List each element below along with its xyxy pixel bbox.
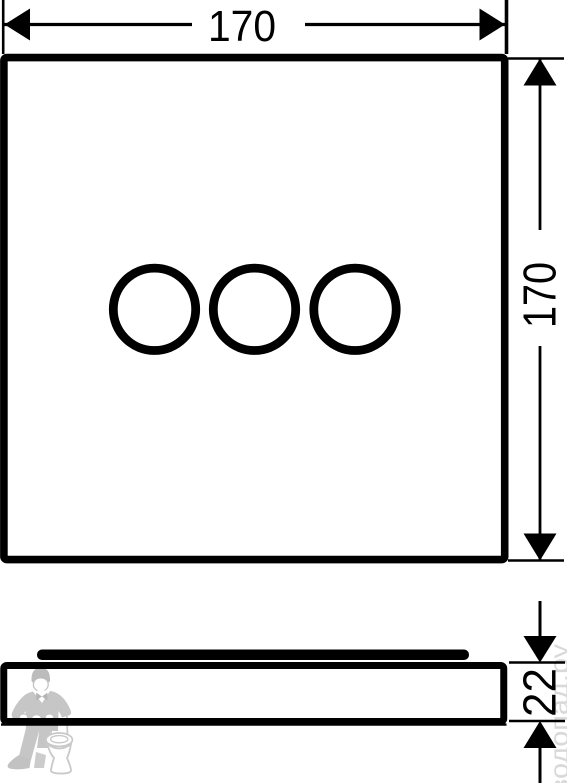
svg-text:170: 170 xyxy=(208,2,276,51)
svg-text:170: 170 xyxy=(514,262,566,328)
svg-text:22: 22 xyxy=(514,668,566,717)
